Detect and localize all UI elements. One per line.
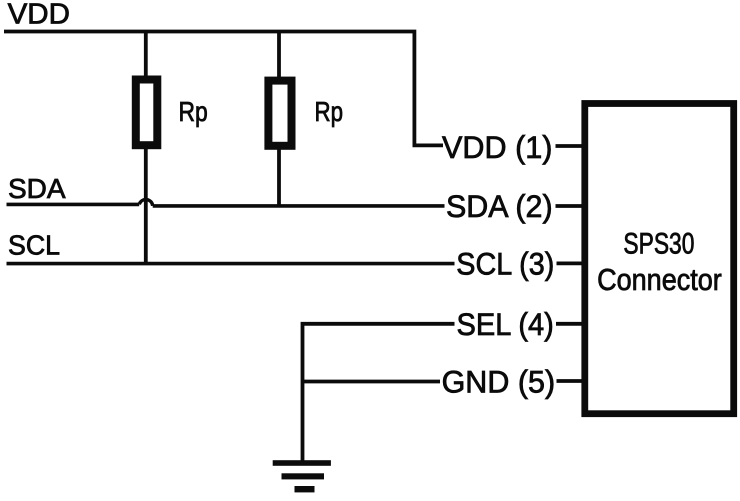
pin stub SEL (4) (556, 322, 585, 326)
svg-text:VDD: VDD (8, 0, 70, 31)
pin stub SCL (3) (557, 261, 585, 265)
svg-text:SDA (2): SDA (2) (446, 188, 553, 224)
wire GND to ground (303, 380, 441, 384)
svg-text:Rp: Rp (179, 96, 208, 127)
ground symbol (273, 460, 331, 492)
wire VDD rail to R1 (144, 32, 148, 80)
wire VDD rail (4, 32, 443, 146)
wire SDA hop over SCL wire (139, 199, 153, 205)
svg-text:Connector: Connector (597, 263, 722, 297)
resistor R2 (268, 81, 291, 146)
svg-text:SCL: SCL (8, 229, 60, 260)
wire SDA right segment to pin 2 (153, 204, 445, 208)
pin stub GND (5) (557, 379, 585, 383)
svg-text:GND (5): GND (5) (442, 363, 555, 399)
svg-text:SDA: SDA (8, 173, 66, 204)
pin stub VDD (1) (556, 144, 585, 148)
wire R2 to SDA (277, 145, 281, 207)
wire R1 to SCL (144, 146, 148, 264)
svg-text:SEL (4): SEL (4) (457, 306, 554, 342)
connector box U1 (585, 104, 734, 414)
wire SCL to pin 3 (7, 262, 455, 266)
wire SDA left segment (7, 203, 140, 207)
wire SEL to ground (303, 324, 455, 461)
svg-text:SCL (3): SCL (3) (456, 245, 554, 281)
resistor R1 (136, 80, 158, 146)
svg-text:SPS30: SPS30 (623, 227, 694, 260)
svg-text:VDD (1): VDD (1) (442, 129, 553, 165)
pin stub SDA (2) (556, 204, 585, 208)
wire VDD rail to R2 (277, 32, 281, 82)
svg-text:Rp: Rp (315, 96, 344, 127)
